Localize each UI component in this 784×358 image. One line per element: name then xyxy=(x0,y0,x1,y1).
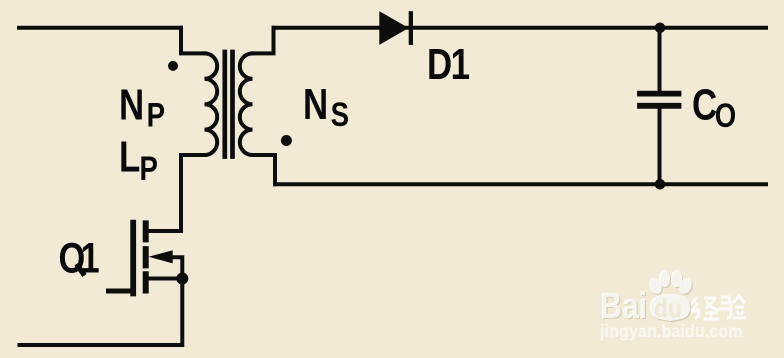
svg-text:jingyan.baidu.com: jingyan.baidu.com xyxy=(599,321,743,341)
watermark yan character xyxy=(718,296,746,318)
svg-text:LP: LP xyxy=(119,133,158,188)
label Q1 tail stroke xyxy=(77,264,85,276)
wire bottom-left rail and source riser xyxy=(20,257,183,345)
watermark baidu jingyan xyxy=(599,270,746,341)
polarity dot secondary xyxy=(281,135,292,146)
svg-text:NS: NS xyxy=(303,80,349,133)
watermark jing character xyxy=(691,297,719,319)
node source junction dot xyxy=(176,273,188,285)
MOSFET Q1 source lead xyxy=(146,277,182,281)
transformer T1 secondary winding xyxy=(240,53,253,155)
wire secondary top lead xyxy=(253,28,274,54)
wire primary bottom lead to drain xyxy=(146,155,205,231)
wire bottom-right rail xyxy=(275,182,766,186)
diode D1 triangle xyxy=(379,11,408,45)
svg-text:du: du xyxy=(654,295,682,324)
svg-text:CO: CO xyxy=(692,81,736,135)
wire secondary bottom lead xyxy=(253,155,276,184)
capacitor CO top lead xyxy=(658,28,662,91)
watermark paw icon xyxy=(647,276,664,296)
svg-text:D1: D1 xyxy=(427,40,470,89)
MOSFET Q1 body arrow xyxy=(149,250,173,263)
MOSFET Q1 gate lead xyxy=(109,289,134,294)
diode D1 cathode bar xyxy=(409,11,413,45)
polarity dot primary xyxy=(168,61,178,71)
node junction dot top (cap/rail) xyxy=(655,23,666,34)
svg-text:NP: NP xyxy=(119,81,165,134)
MOSFET Q1 gate bar xyxy=(130,223,136,294)
MOSFET Q1 channel segments xyxy=(143,223,149,290)
node junction dot bottom (cap/rail) xyxy=(655,179,666,190)
capacitor CO bottom lead xyxy=(658,109,662,185)
transformer T1 primary winding xyxy=(205,53,218,155)
wire primary top lead xyxy=(181,28,205,54)
wire top-left input rail xyxy=(19,26,181,30)
svg-text:O1: O1 xyxy=(59,235,100,282)
transformer core xyxy=(225,52,233,157)
watermark shadow layer xyxy=(601,271,695,328)
capacitor CO plates xyxy=(640,94,679,106)
wire top-right rail xyxy=(274,26,767,30)
